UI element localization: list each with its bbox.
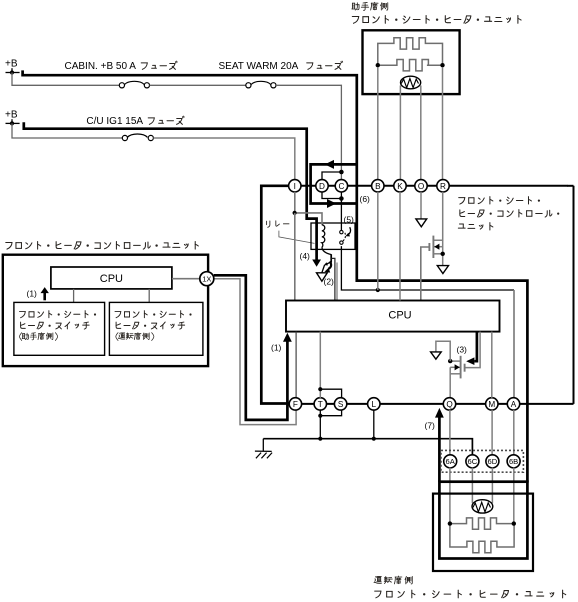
node passenger heater right junction — [440, 63, 444, 67]
connector pin 6A — [444, 455, 457, 468]
node MOSFET Q2 source junction — [441, 252, 445, 256]
label (3) — [457, 345, 468, 355]
box front seat heater switch (driver) — [109, 302, 202, 355]
bold current path from +B through SEAT WARM fuse to heater relay contact and driver heater unit — [23, 70, 528, 482]
wire CPU to terminal F — [295, 332, 297, 398]
wire thermostat TH1 to terminal O — [420, 86, 422, 180]
label CPU (control unit) — [388, 310, 411, 322]
label (5) — [344, 215, 355, 225]
node T lower bridge junction — [318, 414, 322, 418]
box front seat heater switch (passenger) — [14, 302, 105, 355]
terminal S — [334, 398, 346, 410]
svg-text:6B: 6B — [509, 457, 518, 466]
connector pin 6C — [466, 455, 479, 468]
label CABIN. +B 50 A fuse — [65, 61, 178, 72]
wire MOSFET Q3 drain to ground arrow — [436, 341, 450, 361]
wire terminal K to CPU — [399, 192, 401, 301]
svg-text:O: O — [418, 182, 424, 191]
wire CPU to terminal M — [491, 332, 493, 398]
wire connector 1X to CPU input (thin) — [214, 279, 296, 425]
relay contact fixed point upper — [340, 230, 343, 233]
svg-text:+B: +B — [5, 59, 18, 70]
connector pin 6B — [507, 455, 520, 468]
svg-text:I: I — [294, 182, 296, 191]
label CPU (front heater control unit) — [100, 273, 123, 285]
chassis ground symbol — [255, 439, 272, 459]
MOSFET Q3 source stub — [450, 373, 460, 375]
svg-text:R: R — [440, 182, 446, 191]
node junction on I wire — [293, 211, 297, 215]
terminal T — [314, 398, 326, 410]
svg-text:SEAT WARM 20A: SEAT WARM 20A — [219, 61, 299, 72]
wire terminal D parallel tie to C (upper) — [322, 172, 341, 180]
bold current path from +B through C/U IG1 fuse to relay coil, arrow (4) — [24, 122, 321, 267]
svg-text:(4): (4) — [300, 251, 311, 261]
terminal C — [335, 180, 347, 192]
fuse F1 CABIN. +B 50 A — [119, 81, 149, 88]
relay contact movable arm (dashed) — [343, 232, 345, 241]
MOSFET Q2 channel bar — [432, 236, 434, 258]
node terminal B junction on switched line — [376, 288, 380, 292]
svg-text:M: M — [488, 400, 495, 409]
box driver front seat heater unit — [433, 494, 533, 571]
transistor Q1 emitter with arrow — [324, 262, 331, 266]
terminal I — [289, 180, 301, 192]
connector 6 box (dashed) — [441, 450, 523, 472]
wire MOSFET Q3 source to terminal Q — [449, 367, 451, 398]
svg-text:+B: +B — [5, 110, 18, 121]
wire tie terminals T and S (lower bridge) — [320, 410, 341, 416]
label front seat heater unit (driver) — [375, 590, 566, 598]
svg-text:Q: Q — [446, 400, 452, 409]
wire between fuse F1 and F2 — [150, 84, 246, 86]
wire fuse F3 to terminal I — [153, 138, 294, 180]
node terminal T on ground bus — [318, 437, 322, 441]
wire connector 6C to thermostat TH2 — [471, 467, 473, 503]
label front seat heater unit (passenger) — [352, 16, 521, 24]
wire connector 6A to driver heater left junction — [449, 467, 451, 523]
node D/C tie upper — [339, 170, 344, 175]
svg-text:6D: 6D — [488, 457, 498, 466]
wire terminal R to MOSFET Q2 drain — [434, 192, 443, 240]
wire transistor Q1 base to CPU — [331, 258, 337, 300]
MOSFET Q3 body stub with arrow — [450, 364, 460, 370]
svg-text:(3): (3) — [457, 345, 468, 355]
wire terminal Q to connector 6A — [449, 410, 451, 455]
wire tie terminals T and S (upper bridge) — [320, 389, 341, 398]
label relay (riree) — [267, 221, 289, 228]
wire ground bus — [263, 439, 472, 456]
wire +B1 to fuse (thin) — [12, 73, 119, 86]
svg-text:1X: 1X — [202, 275, 211, 284]
svg-text:L: L — [372, 400, 377, 409]
label (7) — [425, 421, 436, 431]
svg-text:CABIN. +B 50 A: CABIN. +B 50 A — [65, 61, 137, 72]
terminal B — [372, 180, 384, 192]
wire terminal A to connector 6B — [513, 410, 515, 455]
label (1) near CPU — [271, 343, 282, 353]
wire terminal D parallel tie to C (lower) — [322, 192, 341, 199]
thermostat TH2 (driver) — [472, 500, 493, 513]
label (4) — [300, 251, 311, 261]
node T upper bridge junction — [318, 387, 322, 391]
label C/U IG1 15A fuse — [86, 116, 184, 127]
connector pin 6D — [486, 455, 499, 468]
CPU box (front heater control unit) — [51, 267, 172, 289]
svg-text:C/U IG1 15A: C/U IG1 15A — [86, 116, 143, 127]
heater element R3 (driver upper) — [450, 518, 514, 529]
terminal Q — [443, 398, 455, 410]
label (6) — [360, 194, 371, 204]
wire control unit right edge — [573, 186, 575, 404]
svg-text:6A: 6A — [446, 457, 456, 466]
wire terminal T to ground bus — [319, 410, 321, 439]
wire MOSFET Q2 gate to CPU — [421, 247, 430, 301]
terminal D — [316, 180, 328, 192]
thermostat TH1 (passenger) — [401, 76, 421, 89]
node terminal L on ground bus — [372, 437, 376, 441]
svg-text:F: F — [293, 400, 298, 409]
label passenger side (joshuseki-gawa) — [352, 2, 388, 10]
MOSFET Q2 source stub — [433, 253, 442, 255]
heater element R4 (driver lower) — [450, 524, 514, 553]
node passenger heater left junction — [376, 63, 380, 67]
MOSFET Q2 body stub with arrow — [433, 244, 442, 250]
svg-text:CPU: CPU — [388, 310, 411, 322]
MOSFET Q2 gate bar — [428, 243, 430, 251]
svg-text:T: T — [318, 400, 323, 409]
svg-text:B: B — [375, 182, 381, 191]
node +B (CABIN +B feed) — [5, 59, 20, 75]
fuse F3 C/U IG1 15A — [122, 134, 153, 141]
label front seat heater control unit — [458, 197, 559, 230]
wire fuse F2 to terminal C — [276, 85, 341, 179]
ground arrow above MOSFET Q3 — [431, 352, 442, 359]
wire terminal L to ground bus — [373, 410, 375, 439]
svg-text:6C: 6C — [468, 457, 478, 466]
wire passenger heater junction to terminal B — [377, 67, 379, 179]
svg-text:S: S — [338, 400, 344, 409]
wire connector 6D to thermostat TH2 — [491, 467, 493, 503]
ground arrow below terminal O — [416, 219, 427, 227]
wire terminal M to connector 6D — [491, 410, 493, 455]
svg-text:D: D — [319, 182, 325, 191]
terminal K — [394, 180, 406, 192]
transistor Q1 base bar — [330, 254, 332, 262]
MOSFET Q3 drain stub — [450, 360, 460, 362]
label front seat heater switch (passenger) — [20, 311, 97, 341]
wire terminal B to switched output line — [377, 192, 379, 290]
terminal F — [289, 398, 301, 410]
relay contact actuation arrow (5) — [345, 227, 350, 236]
relay contact fixed point lower — [340, 241, 343, 244]
bold current loop around terminals D and C with flow arrows — [311, 160, 357, 208]
terminal O — [415, 180, 427, 192]
fuse F2 SEAT WARM 20A — [246, 81, 276, 88]
terminal R — [437, 180, 449, 192]
svg-text:(5): (5) — [344, 215, 355, 225]
bold arrow (1) switch signal to CPU — [41, 287, 49, 300]
wire terminal I down to CPU power input — [294, 213, 296, 301]
svg-text:K: K — [397, 182, 403, 191]
terminal M — [486, 398, 498, 410]
relay box — [311, 223, 355, 249]
label (2) — [324, 277, 335, 287]
connector terminal 1X — [200, 272, 214, 286]
bold current flow (3) from CPU to MOSFET Q3 gate — [466, 332, 477, 365]
svg-text:(7): (7) — [425, 421, 436, 431]
wire terminal O to ground arrow — [420, 192, 422, 219]
svg-text:(6): (6) — [360, 194, 371, 204]
bold current path (1) from connector 1X to CPU — [214, 275, 292, 420]
terminal L — [368, 398, 380, 410]
wire +B2 to fuse (thin) — [12, 123, 122, 138]
svg-text:(1): (1) — [271, 343, 282, 353]
wire terminal I to relay coil — [295, 192, 322, 225]
wire thermostat TH1 to terminal K — [399, 86, 401, 180]
MOSFET Q3 channel bar — [460, 356, 462, 379]
node +B (C/U IG1 feed) — [5, 110, 20, 126]
bold current flow arrow (2) through transistor to ground — [324, 261, 331, 272]
CPU box (seat heater control unit) — [286, 301, 500, 332]
wire terminal row 2 connecting segments — [289, 403, 573, 405]
bold current path loop through driver heater unit — [439, 482, 527, 559]
terminal A — [507, 398, 519, 410]
node MOSFET Q3 drain junction — [448, 359, 452, 363]
wire relay coil to transistor Q1 collector — [322, 247, 331, 254]
svg-text:(2): (2) — [324, 277, 335, 287]
svg-text:(1): (1) — [27, 289, 38, 299]
box passenger front seat heater unit — [363, 30, 460, 94]
label SEAT WARM 20A fuse — [219, 61, 343, 72]
relay coil L1 — [322, 225, 325, 248]
wire CPU to driver heater switch — [148, 289, 150, 303]
wire MOSFET Q2 source to ground — [442, 240, 444, 265]
wire CPU to MOSFET Q3 gate (thin) — [465, 332, 480, 368]
ground arrow below transistor Q1 — [317, 273, 328, 281]
svg-text:C: C — [338, 182, 344, 191]
wire switched line down to terminal A — [513, 290, 515, 398]
wire CPU to passenger heater switch — [73, 289, 75, 303]
heater element R2 (passenger lower) — [378, 59, 443, 70]
wire connector 6B to driver heater right junction — [513, 467, 515, 523]
wire terminal row 1 connecting segments — [289, 185, 574, 187]
node driver heater left junction — [448, 521, 452, 525]
svg-text:CPU: CPU — [100, 273, 123, 285]
wire terminal C to relay contact — [340, 192, 342, 231]
bold current flow arrow (7) from driver heater unit to terminal Q — [435, 408, 444, 482]
label front heater control unit — [6, 241, 199, 249]
heater element R1 (passenger upper) — [378, 38, 443, 66]
label (1) near switch — [27, 289, 38, 299]
wire CPU to connector 1X — [172, 278, 200, 280]
ground arrow below MOSFET Q2 — [437, 266, 448, 274]
bold wire terminal I to terminal F — [261, 186, 289, 404]
wire CPU to terminal T — [319, 332, 321, 398]
label front seat heater switch (driver) — [115, 311, 192, 341]
svg-text:A: A — [511, 400, 517, 409]
MOSFET Q3 gate bar — [464, 364, 466, 372]
wire passenger heater junction to terminal R — [442, 67, 444, 179]
box front heater control unit — [3, 255, 208, 366]
wire relay contact to switched output line — [341, 246, 514, 290]
leader line from relay label to relay box — [279, 231, 315, 244]
node D/C tie lower — [339, 196, 344, 201]
node driver heater right junction — [512, 521, 516, 525]
label driver side (untenseki-gawa) — [374, 576, 412, 584]
wire emitter to ground — [322, 265, 325, 273]
